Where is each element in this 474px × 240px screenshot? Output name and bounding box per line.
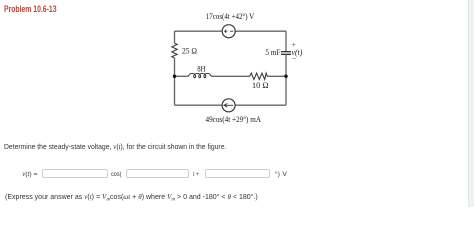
wire middle branch left <box>175 75 189 77</box>
resistor R2 10 ohm <box>250 73 267 79</box>
voltage source V1 circle <box>222 25 235 38</box>
node junction dot right <box>284 75 288 79</box>
express answer note <box>5 194 258 201</box>
question text <box>4 144 226 151</box>
wire right lower <box>285 54 287 105</box>
wire bottom-right segment <box>235 104 286 106</box>
wire middle branch right <box>267 75 286 77</box>
inductor L1 8H <box>189 73 211 77</box>
capacitor C1 5mF bottom plate <box>281 53 291 55</box>
current source arrow head <box>224 104 227 108</box>
wire bottom-left segment <box>175 104 223 106</box>
node junction dot left <box>173 75 177 79</box>
wire right upper <box>285 31 287 51</box>
right border line <box>468 0 474 207</box>
wire top-left segment <box>175 30 223 32</box>
wire top-right segment <box>235 30 286 32</box>
wire left lower <box>174 58 176 105</box>
capacitor C1 5mF top plate <box>281 51 291 53</box>
wire middle branch center <box>211 75 250 77</box>
wire left upper <box>174 31 176 43</box>
voltage source plus sign <box>224 30 233 108</box>
current source I1 circle <box>222 99 235 112</box>
problem heading <box>4 5 57 14</box>
current source arrow shaft <box>225 104 233 106</box>
resistor R1 25 ohm <box>172 43 177 58</box>
voltage source minus sign <box>230 30 233 32</box>
